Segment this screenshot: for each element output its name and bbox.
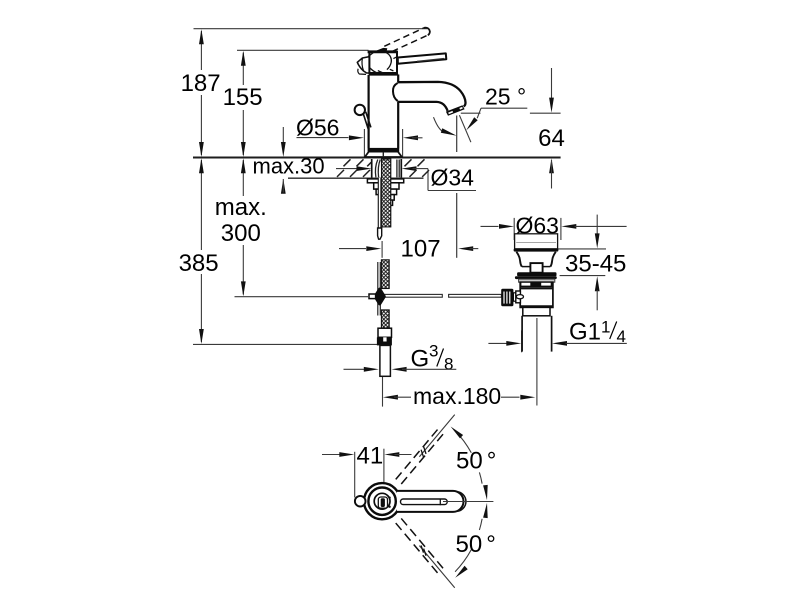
svg-text:25 °: 25 ° bbox=[485, 84, 526, 110]
svg-text:64: 64 bbox=[538, 125, 565, 152]
svg-text:Ø34: Ø34 bbox=[431, 165, 475, 191]
svg-text:50°: 50° bbox=[456, 531, 496, 558]
svg-text:107: 107 bbox=[401, 236, 441, 263]
svg-text:35-45: 35-45 bbox=[565, 251, 626, 278]
svg-text:3: 3 bbox=[429, 342, 438, 361]
svg-text:41: 41 bbox=[357, 443, 384, 470]
svg-text:G: G bbox=[411, 346, 430, 373]
svg-text:8: 8 bbox=[444, 355, 453, 374]
svg-text:50°: 50° bbox=[456, 447, 496, 474]
svg-text:G1: G1 bbox=[569, 319, 601, 346]
svg-text:1: 1 bbox=[601, 318, 610, 337]
svg-text:Ø56: Ø56 bbox=[296, 115, 339, 141]
svg-text:155: 155 bbox=[223, 84, 263, 111]
svg-text:300: 300 bbox=[221, 220, 261, 247]
svg-text:187: 187 bbox=[181, 70, 221, 97]
svg-text:max.: max. bbox=[215, 194, 267, 221]
svg-text:385: 385 bbox=[179, 250, 219, 277]
svg-text:max.30: max.30 bbox=[253, 154, 325, 179]
svg-text:max.180: max.180 bbox=[413, 383, 501, 409]
